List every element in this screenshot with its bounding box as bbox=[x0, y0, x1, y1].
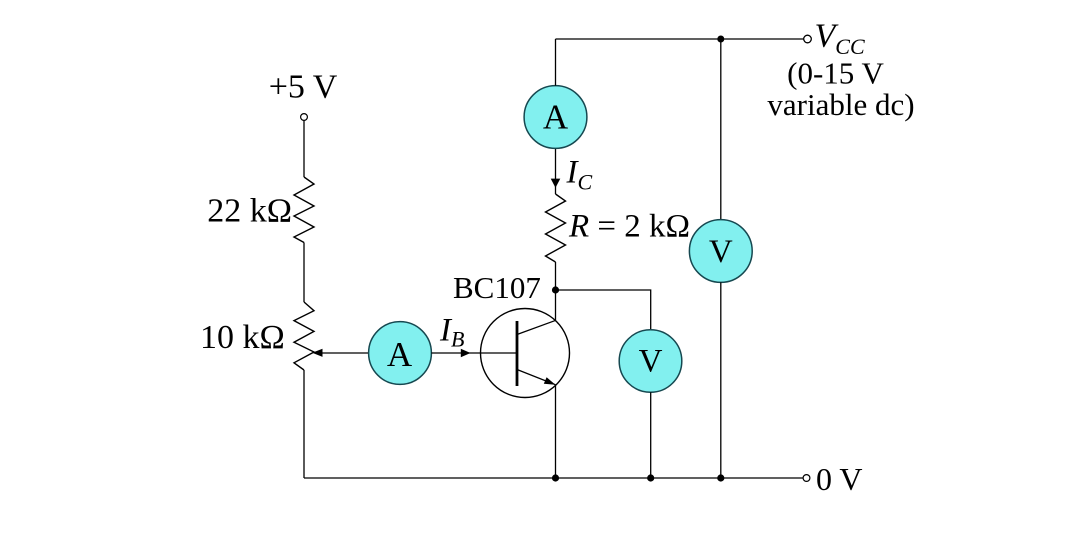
arrowhead IB bbox=[461, 349, 471, 357]
wire V2 to rail bbox=[650, 392, 652, 478]
potentiometer 10 kOhm bbox=[294, 302, 314, 370]
node top rail junction bbox=[717, 36, 724, 43]
node V2-rail junction bbox=[647, 474, 654, 481]
node right-rail junction bbox=[717, 474, 724, 481]
wire emitter to rail bbox=[555, 385, 557, 478]
arrowhead IC bbox=[551, 179, 561, 188]
svg-text:(0-15 V: (0-15 V bbox=[787, 56, 884, 91]
svg-text:A: A bbox=[543, 98, 569, 137]
svg-text:IB: IB bbox=[439, 313, 464, 352]
voltmeter V1 (supply) bbox=[689, 220, 752, 283]
voltmeter V2 (collector-emitter) bbox=[619, 330, 682, 393]
transistor Q1 BC107 bbox=[481, 309, 570, 398]
node +5V terminal bbox=[301, 114, 308, 121]
node collector junction bbox=[552, 286, 559, 293]
svg-text:V: V bbox=[639, 344, 663, 380]
ammeter A1 (base) bbox=[369, 322, 432, 385]
svg-text:R = 2 kΩ: R = 2 kΩ bbox=[568, 209, 690, 245]
svg-text:10 kΩ: 10 kΩ bbox=[200, 319, 285, 356]
wire bbox=[303, 243, 305, 303]
wire A2 to top rail bbox=[555, 39, 557, 86]
wire bbox=[303, 370, 305, 478]
svg-text:VCC: VCC bbox=[815, 18, 865, 59]
wiper arrowhead bbox=[312, 349, 322, 357]
resistor R 2 kOhm bbox=[546, 194, 566, 262]
node 0V terminal bbox=[803, 475, 810, 482]
svg-text:IC: IC bbox=[566, 155, 593, 195]
svg-text:22 kΩ: 22 kΩ bbox=[207, 193, 292, 230]
wire IC arrow shaft bbox=[555, 148, 557, 194]
node emitter-rail junction bbox=[552, 474, 559, 481]
wire bbox=[303, 121, 305, 177]
wire collector resistor column bbox=[555, 262, 557, 290]
wire right branch lower bbox=[720, 282, 722, 478]
node VCC terminal bbox=[804, 35, 812, 43]
svg-text:+5 V: +5 V bbox=[269, 69, 338, 106]
resistor 22 kOhm bbox=[294, 177, 314, 243]
wire wiper bbox=[322, 352, 369, 354]
svg-text:A: A bbox=[387, 335, 413, 374]
wire top rail bbox=[556, 38, 804, 40]
wire right branch upper bbox=[720, 39, 722, 220]
wire collector up bbox=[555, 290, 557, 320]
svg-text:variable dc): variable dc) bbox=[767, 87, 914, 122]
svg-text:BC107: BC107 bbox=[453, 270, 541, 305]
svg-text:V: V bbox=[709, 234, 733, 270]
ammeter A2 (collector) bbox=[524, 86, 587, 149]
wire base lead bbox=[431, 352, 517, 354]
wire bottom rail bbox=[304, 477, 803, 479]
svg-text:0 V: 0 V bbox=[816, 461, 863, 497]
wire collector node to V2 branch bbox=[556, 290, 651, 330]
